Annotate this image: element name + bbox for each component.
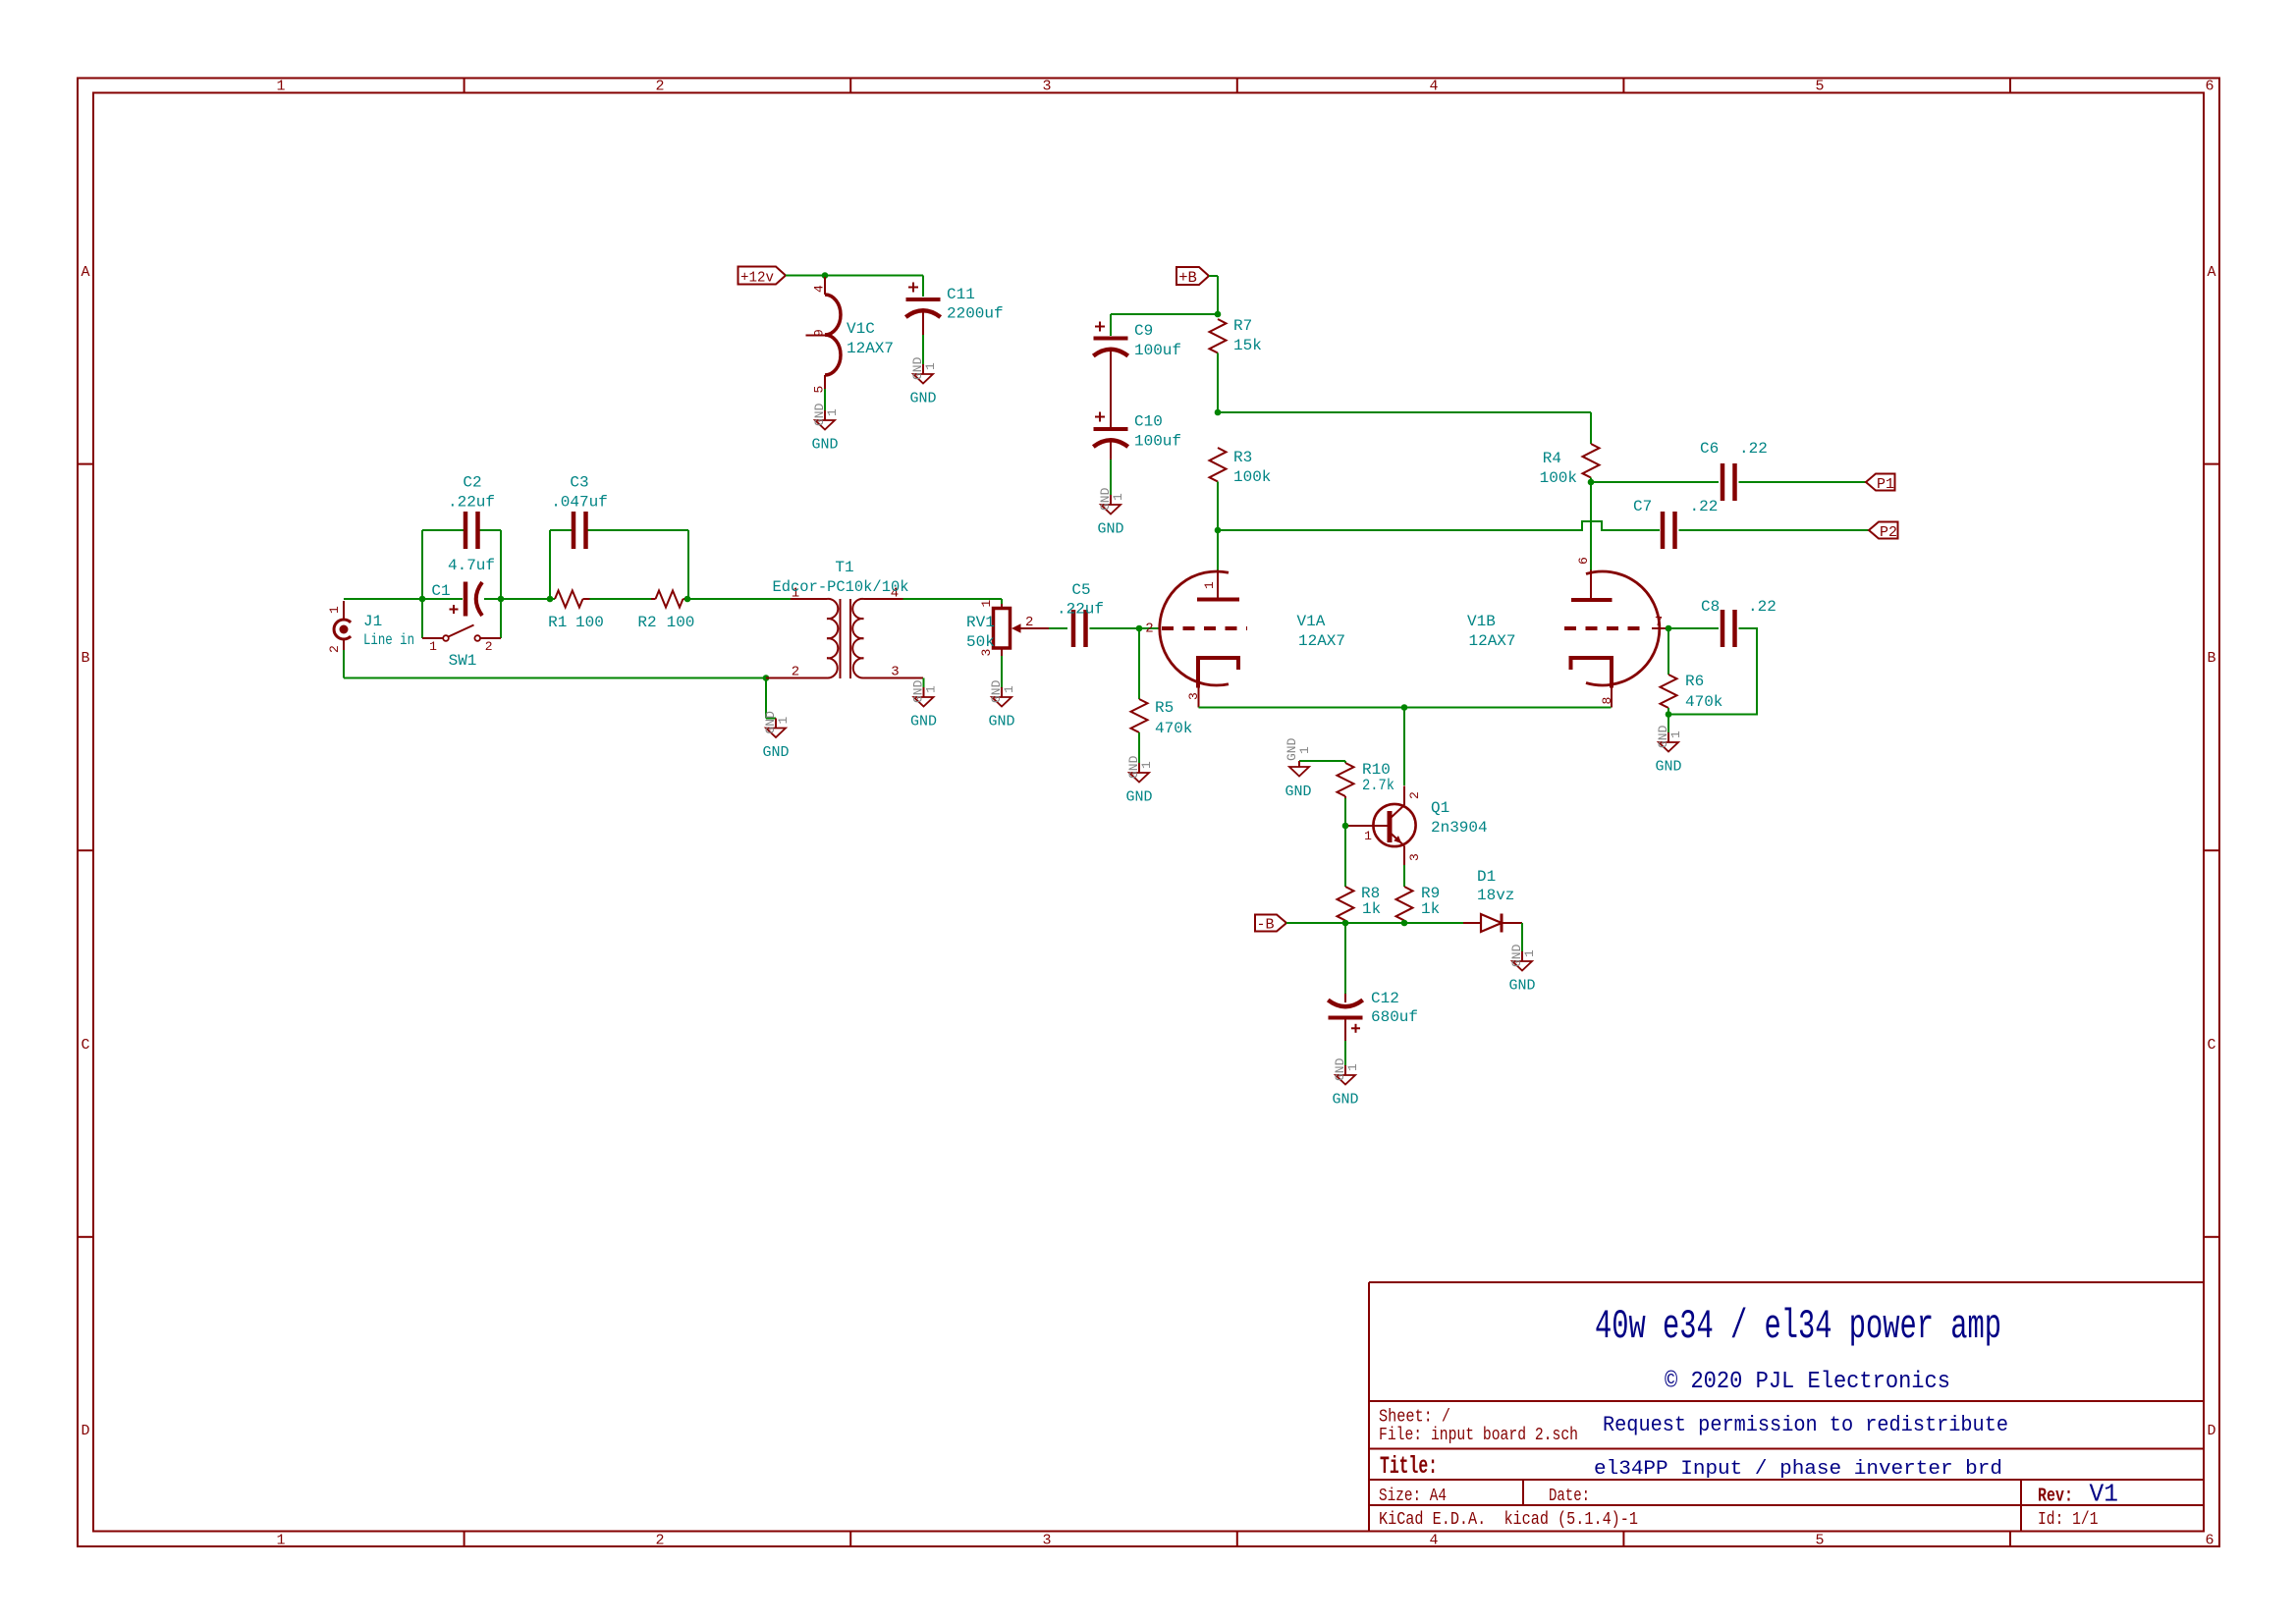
svg-text:1: 1 [979, 600, 994, 608]
tube V1B plate [1571, 557, 1613, 600]
svg-text:V1A: V1A [1297, 613, 1326, 630]
svg-text:Edcor-PC10k/10k: Edcor-PC10k/10k [773, 578, 909, 596]
diode D1 18vz [1463, 868, 1522, 933]
svg-text:GND: GND [910, 714, 937, 730]
wire junction to C8 [1668, 627, 1719, 629]
potentiometer RV1 50k [966, 600, 1049, 657]
svg-text:Q1: Q1 [1431, 799, 1449, 817]
wire +12v to C11 [786, 275, 923, 277]
resistor R8 1k [1338, 885, 1382, 923]
wire C12 to GND [1344, 1041, 1346, 1065]
svg-text:R1: R1 [548, 614, 567, 631]
svg-text:.22: .22 [1748, 598, 1777, 616]
wire R6 to junction [1667, 708, 1669, 715]
title block frame [1369, 1282, 2204, 1532]
resistor R6 470k [1661, 673, 1723, 711]
wire junction to R5 [1138, 628, 1140, 699]
transformer T1 core [840, 599, 842, 678]
svg-text:KiCad E.D.A. kicad (5.1.4)-1: KiCad E.D.A. kicad (5.1.4)-1 [1379, 1510, 1638, 1530]
svg-text:Id: 1/1: Id: 1/1 [2038, 1510, 2099, 1530]
node +B junction [1215, 311, 1222, 318]
svg-text:1: 1 [1345, 1063, 1360, 1071]
svg-text:Request permission to redistri: Request permission to redistribute [1603, 1413, 2008, 1437]
svg-text:A: A [2207, 264, 2215, 281]
svg-text:7: 7 [1655, 615, 1663, 630]
tube V1A cathode [1145, 622, 1238, 708]
svg-text:Rev:: Rev: [2038, 1486, 2073, 1507]
node grid V1B junction [1666, 625, 1672, 632]
svg-text:V1: V1 [2090, 1480, 2119, 1509]
svg-text:C11: C11 [947, 286, 975, 303]
wire D1 to GND [1521, 923, 1523, 951]
tube heater V1C [806, 277, 895, 394]
resistor R2 100 [637, 591, 694, 632]
svg-text:C7: C7 [1633, 498, 1652, 515]
svg-text:9: 9 [812, 329, 827, 337]
svg-text:Date:: Date: [1549, 1487, 1590, 1506]
svg-text:1: 1 [1297, 746, 1312, 754]
svg-text:2200uf: 2200uf [947, 305, 1004, 323]
node R2 right [684, 596, 691, 603]
svg-text:File: input board 2.sch: File: input board 2.sch [1379, 1426, 1578, 1445]
svg-text:P1: P1 [1877, 476, 1894, 493]
ground below R5 [1125, 755, 1154, 805]
wire R10 to base junction [1344, 798, 1346, 826]
svg-text:1: 1 [1002, 685, 1016, 693]
svg-text:2: 2 [792, 665, 799, 680]
node R4 junction [1588, 479, 1595, 486]
node Q1 base junction [1342, 823, 1349, 830]
node grid V1A junction [1136, 625, 1143, 632]
wire J1 to C1 node [344, 598, 422, 600]
svg-text:GND: GND [1285, 784, 1311, 800]
node +12v junction [822, 272, 829, 279]
node R6 bottom junction [1666, 711, 1672, 718]
wire R2 to T1 [687, 598, 791, 600]
svg-text:R5: R5 [1155, 699, 1174, 717]
svg-text:C1: C1 [431, 582, 450, 600]
svg-text:C5: C5 [1071, 581, 1090, 599]
capacitor C5 .22uf [1057, 581, 1104, 647]
svg-text:C8: C8 [1701, 598, 1720, 616]
node R1 left [547, 596, 554, 603]
capacitor C7 .22 [1633, 498, 1718, 549]
svg-text:Line in: Line in [363, 631, 414, 649]
capacitor C9 100uf [1093, 322, 1181, 428]
svg-text:5: 5 [1815, 1533, 1824, 1549]
capacitor C6 .22 [1700, 440, 1768, 501]
resistor R3 100k [1210, 448, 1272, 486]
svg-text:100: 100 [667, 614, 695, 631]
svg-text:470k: 470k [1685, 693, 1722, 711]
svg-text:2.7k: 2.7k [1362, 777, 1394, 794]
svg-text:V1C: V1C [847, 320, 875, 338]
transformer T1 primary [766, 586, 838, 680]
wire junction to C6 [1591, 481, 1719, 483]
svg-text:2: 2 [1145, 622, 1153, 637]
svg-text:1k: 1k [1362, 900, 1381, 918]
svg-text:R7: R7 [1233, 317, 1252, 335]
capacitor C12 680uf [1328, 990, 1418, 1041]
svg-text:4: 4 [812, 285, 827, 293]
svg-text:V1B: V1B [1467, 613, 1496, 630]
svg-text:1k: 1k [1421, 900, 1440, 918]
svg-text:B: B [81, 650, 89, 667]
wire T1 to RV1 [903, 598, 1003, 600]
wire junction to R6 [1667, 628, 1669, 675]
wire Q1 emitter to R9 [1403, 865, 1405, 887]
svg-text:2: 2 [327, 645, 342, 653]
capacitor C10 100uf [1093, 412, 1181, 496]
wire C3 loop [549, 530, 551, 599]
wire RV1 to C5 [1049, 627, 1067, 629]
node C1 right [498, 596, 505, 603]
svg-text:1: 1 [327, 606, 342, 614]
svg-text:680uf: 680uf [1371, 1008, 1418, 1026]
capacitor C2 .22uf [448, 474, 495, 550]
wire R10 top [1299, 760, 1345, 762]
svg-text:R3: R3 [1233, 449, 1252, 466]
ground below RV1 [988, 679, 1016, 730]
capacitor C1 4.7uf [422, 557, 501, 617]
svg-text:1: 1 [923, 362, 938, 370]
svg-text:3: 3 [1042, 79, 1051, 95]
svg-text:1: 1 [276, 79, 285, 95]
node T1 pin2 junction [763, 675, 770, 681]
svg-text:4: 4 [1429, 1533, 1438, 1549]
svg-text:100uf: 100uf [1134, 342, 1181, 359]
svg-text:GND: GND [909, 391, 936, 407]
power flag +12v [738, 267, 787, 287]
tube V1B cathode [1571, 658, 1615, 708]
wire R5 to GND [1138, 732, 1140, 763]
capacitor C11 2200uf [905, 276, 1003, 336]
svg-text:3: 3 [1042, 1533, 1051, 1549]
svg-text:1: 1 [776, 717, 791, 725]
svg-text:C6: C6 [1700, 440, 1719, 458]
svg-text:C: C [81, 1037, 89, 1054]
svg-text:D1: D1 [1477, 868, 1496, 886]
capacitor C8 .22 [1701, 598, 1777, 647]
node R8 bottom junction [1342, 920, 1349, 927]
wire R6 junction to GND [1667, 715, 1669, 733]
svg-text:2: 2 [485, 639, 493, 654]
svg-text:D: D [81, 1423, 89, 1439]
svg-text:Size: A4: Size: A4 [1379, 1487, 1447, 1506]
wire R1 to R2 [590, 598, 652, 600]
tube V1A envelope [1160, 571, 1229, 685]
svg-text:1: 1 [1202, 581, 1217, 589]
svg-text:Title:: Title: [1380, 1452, 1438, 1481]
svg-text:2: 2 [655, 79, 664, 95]
wire +B to R7 [1209, 275, 1218, 277]
wire junction to C12 [1344, 923, 1346, 994]
svg-text:GND: GND [762, 744, 789, 761]
svg-text:+B: +B [1178, 269, 1197, 287]
svg-text:C9: C9 [1134, 322, 1153, 340]
svg-text:SW1: SW1 [449, 652, 477, 670]
svg-text:R6: R6 [1685, 673, 1704, 690]
node R9 bottom junction [1401, 920, 1408, 927]
switch SW1 [422, 599, 501, 670]
wire junction down to GND [765, 678, 767, 719]
svg-text:2: 2 [1407, 791, 1422, 799]
node R3 junction [1215, 527, 1222, 534]
svg-text:5: 5 [1815, 79, 1824, 95]
resistor R1 100 [548, 591, 604, 632]
ground below C12 [1332, 1057, 1360, 1108]
svg-text:GND: GND [1655, 759, 1681, 776]
ground below C11 [909, 356, 938, 406]
node cathode junction [1401, 704, 1408, 711]
svg-text:P2: P2 [1880, 524, 1897, 541]
svg-text:2n3904: 2n3904 [1431, 819, 1488, 837]
wire bottom return [344, 677, 766, 679]
wire R4 to pin6 V1B [1590, 478, 1592, 483]
resistor R5 470k [1131, 699, 1193, 737]
ground below R6 [1655, 725, 1683, 775]
wire C8 feedback loop [1668, 628, 1757, 715]
node R7-R3 junction [1215, 409, 1222, 416]
resistor R7 15k [1210, 317, 1262, 354]
svg-text:C12: C12 [1371, 990, 1399, 1007]
svg-text:C3: C3 [570, 474, 588, 492]
svg-text:.22uf: .22uf [1057, 601, 1104, 619]
svg-text:100uf: 100uf [1134, 433, 1181, 451]
svg-text:2: 2 [655, 1533, 664, 1549]
wire base junction to R8 [1344, 826, 1346, 887]
capacitor C3 .047uf [551, 474, 608, 550]
wire C1 to R1 [501, 598, 555, 600]
svg-text:GND: GND [1332, 1092, 1358, 1109]
svg-text:.22uf: .22uf [448, 494, 495, 512]
wire C5 to grid V1A [1090, 627, 1161, 629]
svg-text:GND: GND [1508, 978, 1535, 995]
resistor R9 1k [1396, 885, 1441, 923]
svg-text:GND: GND [988, 714, 1014, 730]
svg-text:1: 1 [1668, 730, 1683, 738]
svg-text:-B: -B [1256, 917, 1274, 934]
svg-text:C2: C2 [463, 474, 481, 492]
svg-text:50k: 50k [966, 633, 995, 651]
ground below C10 [1097, 487, 1125, 537]
svg-text:6: 6 [2205, 79, 2214, 95]
transistor Q1 2n3904 [1345, 786, 1488, 866]
wire RV1 to GND [1001, 656, 1003, 687]
svg-text:1: 1 [1111, 493, 1125, 501]
svg-text:Sheet: /: Sheet: / [1379, 1408, 1450, 1428]
tube V1A plate [1197, 530, 1239, 600]
svg-text:.22: .22 [1690, 498, 1719, 515]
svg-text:100: 100 [575, 614, 604, 631]
wire R3 to plate V1A [1217, 482, 1219, 531]
connector J1 Line in [327, 601, 414, 678]
tube V1B grid [1564, 615, 1668, 630]
svg-text:1: 1 [429, 639, 437, 654]
svg-text:3: 3 [1186, 692, 1201, 700]
wire plate row to C7 with hop [1218, 521, 1660, 530]
svg-text:B: B [2207, 650, 2215, 667]
wire R7 to R3 [1217, 353, 1219, 413]
svg-text:1: 1 [1139, 761, 1154, 769]
wire C7 to P2 [1679, 529, 1870, 531]
svg-text:15k: 15k [1233, 337, 1262, 354]
svg-text:el34PP Input / phase inverter: el34PP Input / phase inverter brd [1594, 1458, 2002, 1481]
ground below T1 pin3 [910, 678, 939, 730]
tube V1A grid [1162, 626, 1247, 630]
wire C11 to GND [922, 335, 924, 364]
svg-text:GND: GND [811, 437, 838, 454]
wire C6 to P1 [1739, 481, 1867, 483]
hierarchical label P1 [1866, 474, 1895, 494]
wire cathode bus [1199, 707, 1612, 709]
wire junction to C9 [1111, 313, 1218, 315]
svg-text:470k: 470k [1155, 720, 1192, 737]
wire C2 loop [421, 530, 423, 599]
svg-text:4.7uf: 4.7uf [448, 557, 495, 574]
svg-text:12AX7: 12AX7 [847, 340, 894, 357]
svg-text:6: 6 [2205, 1533, 2214, 1549]
svg-text:C: C [2207, 1037, 2215, 1054]
svg-text:1: 1 [1522, 949, 1537, 957]
svg-text:1: 1 [924, 685, 939, 693]
power flag +B [1176, 267, 1209, 287]
svg-text:4: 4 [1429, 79, 1438, 95]
svg-text:6: 6 [1576, 557, 1591, 565]
svg-text:2: 2 [1025, 615, 1033, 630]
tube V1B envelope [1586, 571, 1660, 685]
svg-text:1: 1 [1364, 829, 1372, 843]
svg-text:+12v: +12v [740, 270, 774, 287]
svg-text:100k: 100k [1233, 468, 1271, 486]
svg-text:GND: GND [1097, 521, 1123, 538]
svg-text:3: 3 [1407, 853, 1422, 861]
svg-text:T1: T1 [835, 559, 853, 576]
svg-text:12AX7: 12AX7 [1469, 632, 1516, 650]
svg-text:8: 8 [1600, 697, 1614, 705]
svg-text:R4: R4 [1543, 450, 1561, 467]
svg-text:1: 1 [276, 1533, 285, 1549]
transformer T1 secondary [852, 586, 923, 680]
svg-text:.047uf: .047uf [551, 494, 608, 512]
wire junction to Q1 collector [1403, 708, 1405, 786]
svg-text:40w e34 / el34 power amp: 40w e34 / el34 power amp [1595, 1303, 2001, 1350]
resistor R4 100k [1540, 444, 1600, 487]
svg-text:.22: .22 [1739, 440, 1768, 458]
svg-text:D: D [2207, 1423, 2215, 1439]
svg-text:100k: 100k [1540, 469, 1577, 487]
resistor R10 2.7k [1338, 761, 1395, 798]
ground below V1C [811, 403, 840, 453]
svg-text:18vz: 18vz [1477, 887, 1514, 904]
svg-text:A: A [81, 264, 89, 281]
svg-text:© 2020 PJL Electronics: © 2020 PJL Electronics [1665, 1369, 1950, 1395]
wire -B bus [1286, 922, 1463, 924]
power flag -B [1255, 915, 1286, 934]
svg-text:R2: R2 [637, 614, 656, 631]
svg-text:GND: GND [1125, 789, 1152, 806]
hierarchical label P2 [1869, 522, 1898, 542]
node C1 left [419, 596, 426, 603]
svg-text:1: 1 [825, 408, 840, 416]
svg-text:3: 3 [891, 665, 899, 680]
svg-text:RV1: RV1 [966, 614, 995, 631]
ground below D1 [1508, 944, 1537, 994]
ground below T1 pin2 [762, 711, 791, 761]
ground left of R10 [1285, 737, 1312, 800]
svg-text:J1: J1 [363, 613, 382, 630]
wire V1C pin5 to GND [824, 389, 826, 410]
svg-text:12AX7: 12AX7 [1298, 632, 1345, 650]
wire junction to R4 [1218, 411, 1591, 413]
svg-text:C10: C10 [1134, 413, 1163, 431]
